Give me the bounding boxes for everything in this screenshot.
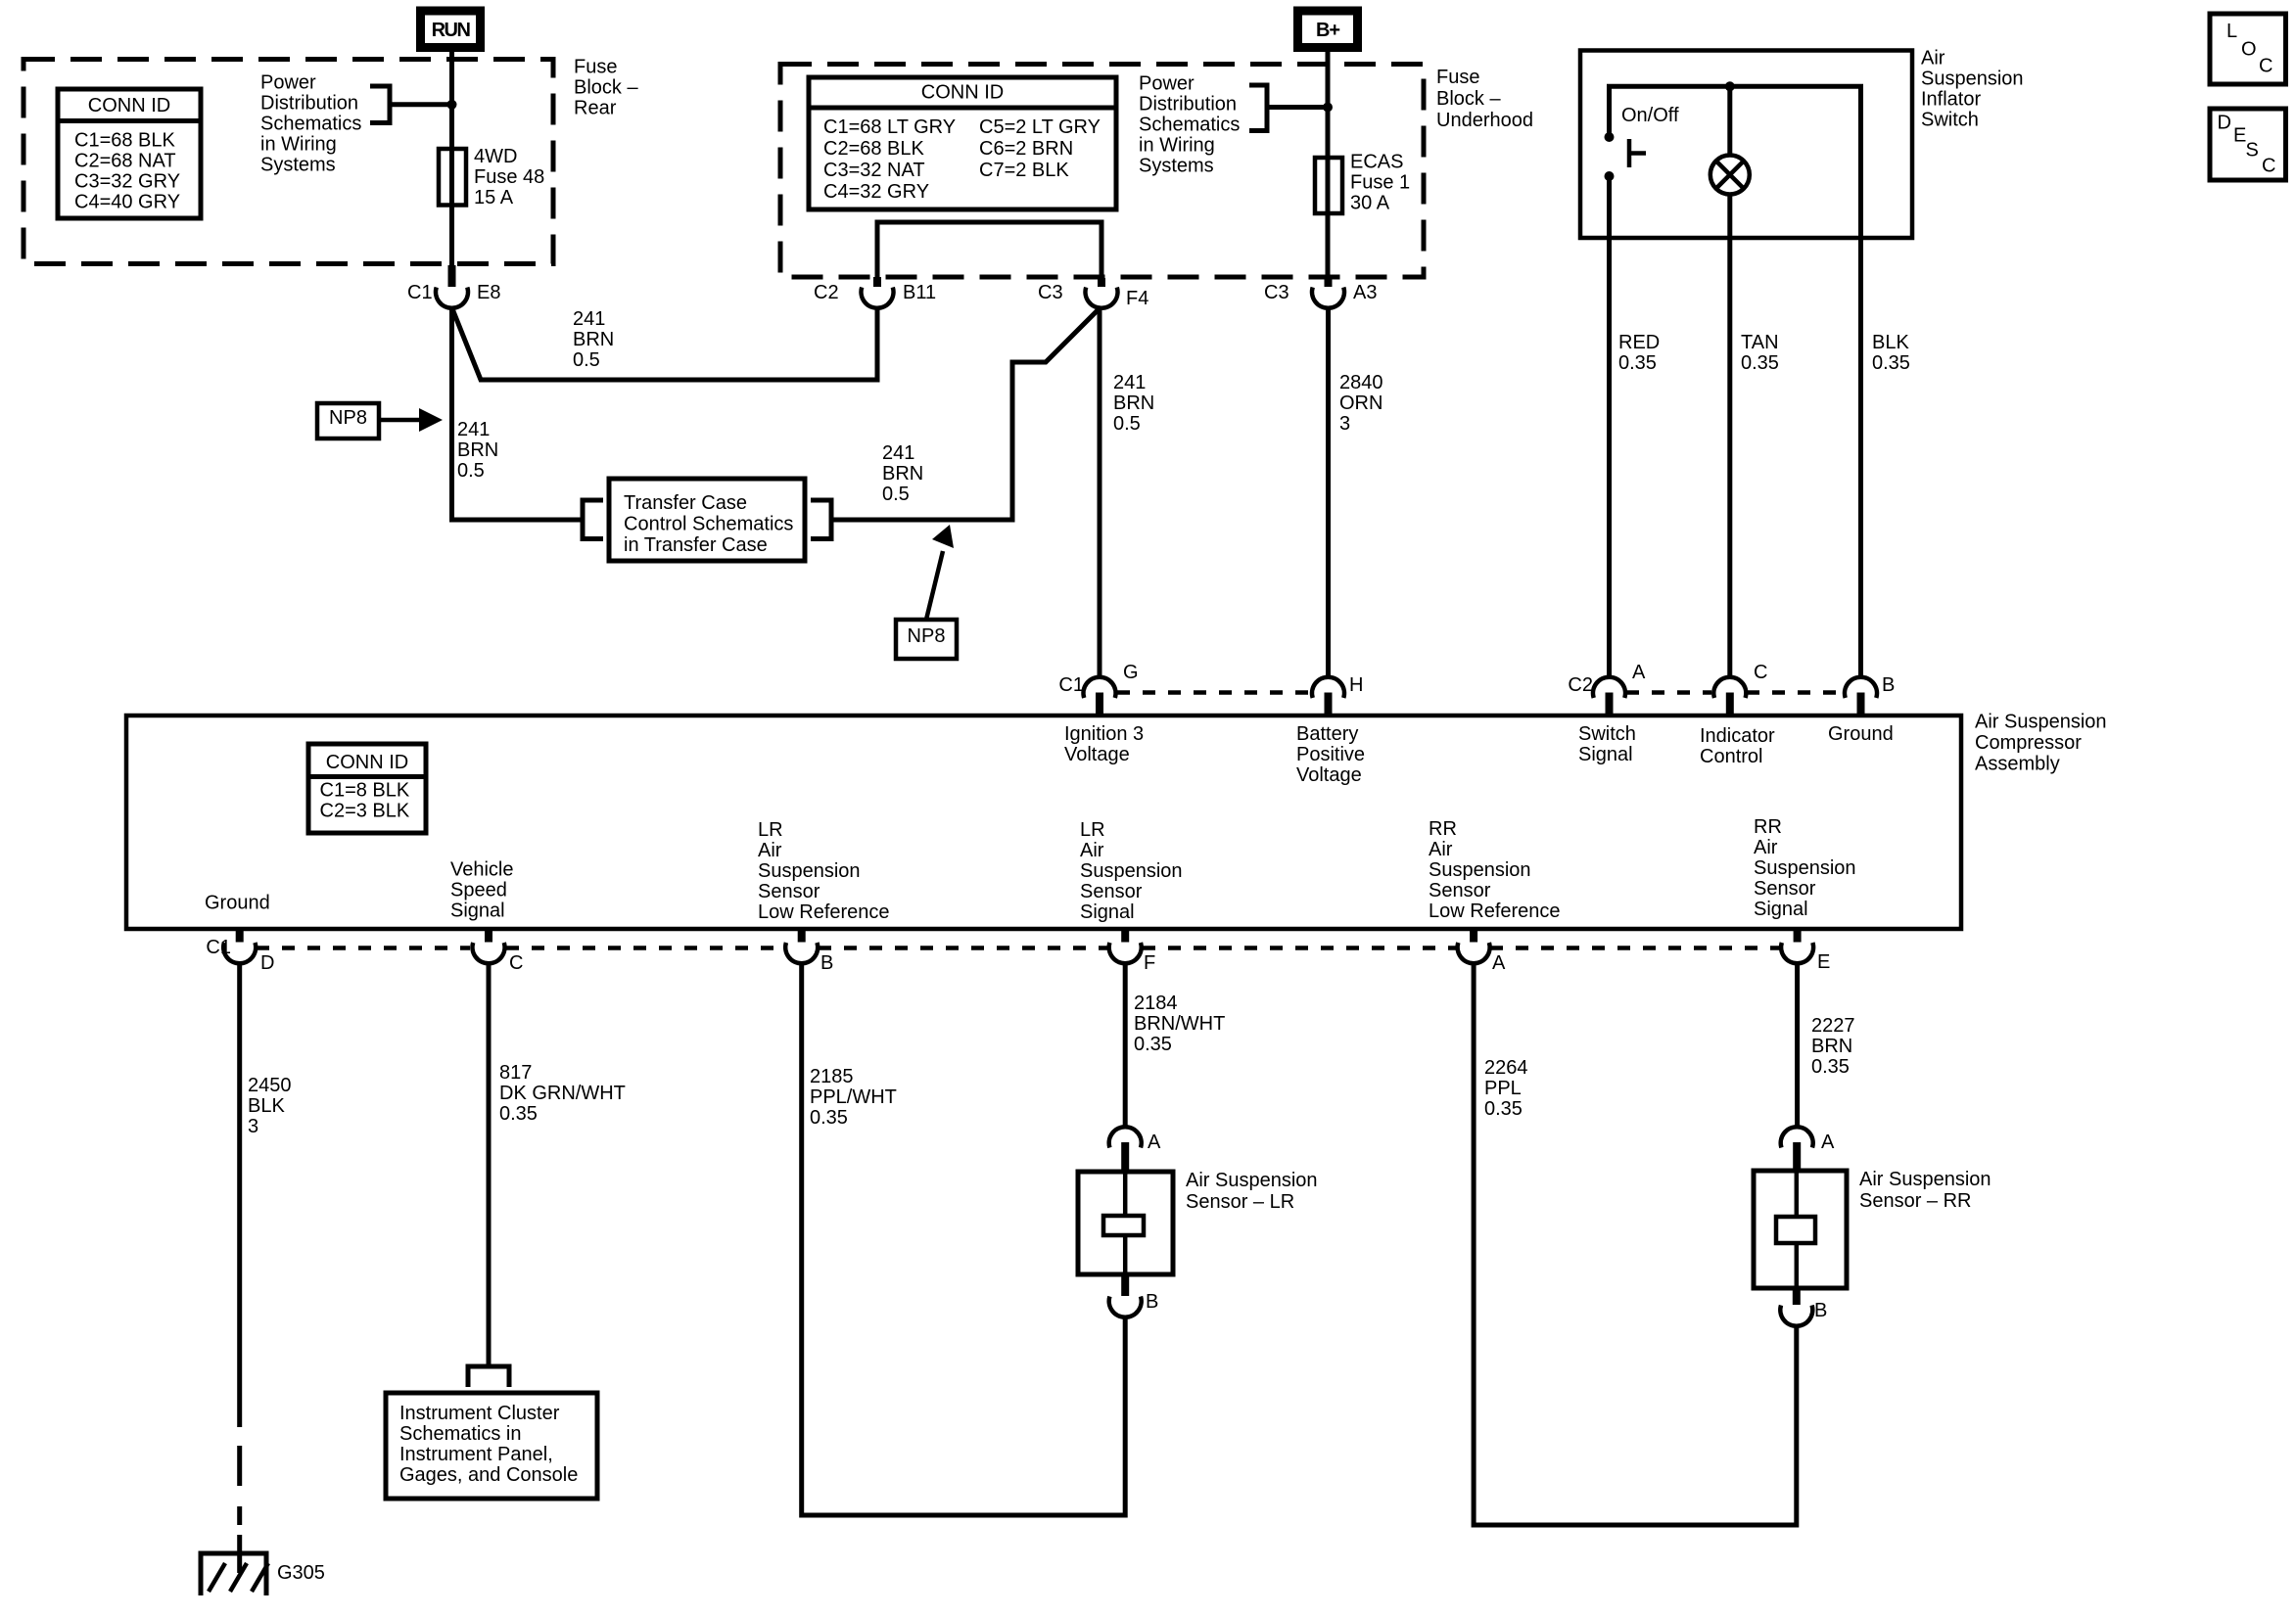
fuse ECAS (Fuse 1 30 A) [1315, 152, 1410, 214]
svg-text:A: A [1821, 1132, 1835, 1153]
wire RUN to fuse 48 [449, 52, 454, 151]
connector B (sensor RR) [1780, 1288, 1827, 1326]
connector H (compressor) [1312, 674, 1363, 716]
connector C1 G (compressor) [1058, 662, 1138, 716]
svg-text:C1=68 BLKC2=68 NATC3=32 GRYC4=: C1=68 BLKC2=68 NATC3=32 GRYC4=40 GRY [74, 130, 180, 213]
wire ECAS to connector A3 [1326, 213, 1331, 278]
dashed link F to A [1143, 946, 1456, 950]
svg-text:L: L [2226, 21, 2237, 42]
svg-text:B11: B11 [903, 282, 936, 303]
svg-text:Air SuspensionSensor – RR: Air SuspensionSensor – RR [1859, 1169, 1991, 1212]
power terminal B+ [1298, 11, 1358, 48]
svg-text:B: B [1814, 1300, 1827, 1321]
svg-text:CONN ID: CONN ID [326, 752, 408, 773]
svg-text:A: A [1148, 1132, 1161, 1153]
wire TAN indicator control [1727, 238, 1732, 678]
fuse block rear dashed box [23, 60, 553, 264]
wire bracket to RUN feed [390, 102, 449, 107]
svg-text:C1: C1 [206, 937, 231, 958]
wire 2185 PPL/WHT low reference loop [802, 964, 1125, 1515]
wire F4 to compressor G [1098, 307, 1102, 678]
DESC reference box [2210, 109, 2286, 180]
wire 2184 BRN/WHT signal [1123, 964, 1128, 1127]
inner link wire B11 to F4 [877, 222, 1101, 278]
svg-text:C: C [2262, 156, 2275, 177]
svg-text:O: O [2241, 39, 2257, 61]
svg-text:2227BRN0.35: 2227BRN0.35 [1811, 1015, 1855, 1078]
wire RED switch signal [1607, 176, 1612, 678]
dashed link G to H [1117, 690, 1310, 695]
svg-text:RUN: RUN [432, 20, 471, 41]
svg-text:On/Off: On/Off [1621, 105, 1679, 126]
svg-text:VehicleSpeedSignal: VehicleSpeedSignal [450, 859, 514, 922]
svg-text:E8: E8 [477, 282, 500, 303]
svg-text:F: F [1144, 952, 1155, 974]
svg-text:H: H [1349, 674, 1363, 696]
connector F (compressor bottom) [1109, 929, 1156, 974]
connector C2 B11 [814, 277, 936, 308]
dashed link D to C [257, 946, 470, 950]
wire 2227 BRN signal [1795, 964, 1800, 1127]
svg-text:Instrument ClusterSchematics i: Instrument ClusterSchematics inInstrumen… [399, 1403, 578, 1486]
air suspension compressor assembly box [126, 716, 1961, 929]
svg-text:BatteryPositiveVoltage: BatteryPositiveVoltage [1296, 723, 1365, 786]
connector C1 D (compressor bottom) [206, 929, 274, 974]
svg-text:C: C [2259, 56, 2273, 77]
svg-text:C: C [1754, 662, 1767, 683]
dashed link A to C [1626, 690, 1711, 695]
switch internal bus wire [1610, 86, 1861, 238]
dashed link C to B [1747, 690, 1843, 695]
svg-text:C3: C3 [1038, 282, 1063, 303]
svg-text:F4: F4 [1126, 288, 1148, 309]
svg-text:BLK0.35: BLK0.35 [1872, 332, 1910, 374]
connector B (compressor bottom) [785, 929, 833, 974]
ground symbol G305 [201, 1553, 268, 1595]
svg-text:A3: A3 [1353, 282, 1377, 303]
svg-text:TAN0.35: TAN0.35 [1741, 332, 1779, 374]
NP8 callout 1 [317, 403, 443, 439]
connector B (compressor) [1845, 674, 1895, 716]
svg-text:C2: C2 [814, 282, 839, 303]
svg-text:G: G [1123, 662, 1139, 683]
svg-text:SwitchSignal: SwitchSignal [1578, 723, 1636, 765]
svg-text:Ground: Ground [205, 893, 270, 914]
junction dot (lamp tap) [1725, 81, 1735, 91]
CONN ID table (compressor) [308, 744, 426, 833]
instrument cluster schematics box [386, 1393, 597, 1499]
bracket for underhood note [1249, 85, 1267, 131]
svg-text:C1: C1 [1058, 674, 1084, 696]
svg-text:C2: C2 [1568, 674, 1593, 696]
CONN ID table (underhood) [809, 77, 1116, 209]
LOC reference box [2210, 14, 2286, 84]
svg-text:C3: C3 [1264, 282, 1289, 303]
wire B+ to fuse ECAS [1326, 48, 1331, 160]
connector A (sensor LR) [1109, 1127, 1161, 1172]
connector C (compressor) [1713, 662, 1767, 716]
connector C1 E8 [407, 265, 500, 308]
fuse block underhood dashed box [780, 65, 1424, 278]
connector A (sensor RR) [1781, 1127, 1835, 1171]
svg-text:C1: C1 [407, 282, 433, 303]
svg-text:NP8: NP8 [329, 407, 367, 429]
connector A (compressor bottom) [1458, 929, 1506, 974]
svg-text:B: B [1146, 1291, 1158, 1313]
wire bracket to B+ feed [1267, 105, 1324, 110]
svg-text:B: B [1882, 674, 1895, 696]
svg-text:B+: B+ [1316, 20, 1339, 41]
wire 2450 BLK ground drop [237, 964, 242, 1573]
svg-text:B: B [820, 952, 833, 974]
air suspension sensor LR box [1078, 1172, 1173, 1274]
svg-text:A: A [1632, 662, 1646, 683]
junction dot (B+ feed) [1323, 103, 1333, 113]
junction dot (RUN feed) [447, 100, 457, 110]
indicator lamp [1710, 86, 1750, 238]
connector C2 A (compressor) [1568, 662, 1646, 716]
wire 241 BRN from E8 to B11 [452, 309, 877, 381]
wire 817 vehicle speed signal [487, 964, 492, 1366]
wire transfer case to F4 [831, 307, 1101, 520]
dashed link B to F [819, 946, 1107, 950]
svg-text:RED0.35: RED0.35 [1618, 332, 1660, 374]
NP8 callout 2 [896, 525, 957, 659]
switch On/Off contacts [1605, 132, 1647, 181]
CONN ID table (fuse block rear) [58, 89, 201, 218]
svg-text:E: E [2233, 125, 2246, 147]
svg-text:E: E [1817, 951, 1830, 973]
terminal bracket (instrument cluster) [468, 1366, 509, 1387]
wire A3 to compressor H [1326, 307, 1331, 678]
svg-text:G305: G305 [277, 1562, 325, 1584]
air suspension inflator switch box [1580, 51, 1912, 239]
svg-text:NP8: NP8 [908, 625, 946, 647]
wire fuse 48 to connector E8 [449, 205, 454, 265]
fuse 48 (4WD Fuse 48 15 A) [439, 146, 544, 208]
svg-text:S: S [2246, 140, 2259, 162]
transfer case schematics box [609, 479, 805, 561]
air suspension sensor RR box [1754, 1171, 1847, 1288]
svg-text:CONN ID: CONN ID [88, 95, 170, 116]
svg-text:C1=8 BLKC2=3 BLK: C1=8 BLKC2=3 BLK [320, 780, 410, 822]
svg-text:C: C [509, 952, 523, 974]
wire BLK switch ground [1858, 238, 1863, 678]
connector E (compressor bottom) [1781, 929, 1830, 973]
connector C3 F4 [1038, 278, 1148, 309]
wire 2264 PPL low reference loop (RR) [1474, 964, 1797, 1525]
svg-text:D: D [2218, 113, 2231, 134]
bracket for rear note [370, 86, 390, 123]
connector C3 A3 [1264, 278, 1377, 308]
wire E8 down to transfer case [452, 309, 582, 521]
bracket right (transfer case) [811, 500, 831, 539]
connector B (sensor LR) [1109, 1274, 1159, 1317]
dashed link C to B [506, 946, 783, 950]
power terminal RUN [421, 11, 481, 48]
svg-text:Ground: Ground [1828, 723, 1894, 745]
connector C (compressor bottom) [473, 929, 524, 974]
svg-text:D: D [260, 952, 274, 974]
dashed link A to E [1490, 946, 1780, 950]
svg-text:CONN ID: CONN ID [921, 82, 1004, 104]
bracket left (transfer case) [583, 500, 603, 539]
svg-text:A: A [1492, 952, 1506, 974]
